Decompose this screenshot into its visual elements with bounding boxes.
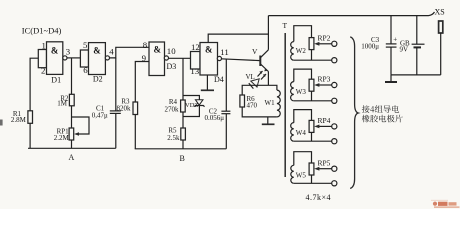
ground below W1: [262, 117, 275, 124]
resistor R6: [240, 95, 258, 110]
svg-text:RP3: RP3: [318, 75, 331, 84]
svg-text:B: B: [180, 154, 185, 163]
annotation text: [362, 105, 403, 122]
svg-text:2.2M: 2.2M: [54, 134, 70, 142]
svg-text:5: 5: [83, 40, 88, 50]
capacitor C3 branch: [361, 16, 397, 75]
svg-text:8: 8: [143, 40, 148, 50]
wire junction down to C2: [225, 59, 227, 111]
resistor R5: [167, 117, 185, 149]
primary winding W1: [265, 90, 281, 117]
wire junction down to C1: [115, 58, 117, 111]
LED VL: [246, 71, 267, 89]
capacitor C2: [204, 107, 230, 121]
svg-text:0.056μ: 0.056μ: [204, 114, 224, 122]
svg-text:+: +: [393, 36, 397, 44]
R6 W1 loop wires: [242, 85, 277, 95]
bottom negative line: [391, 74, 441, 76]
svg-text:820k: 820k: [117, 105, 132, 113]
wire D2 out to junction: [109, 47, 149, 58]
svg-text:&: &: [93, 45, 101, 55]
top power rail: [268, 15, 428, 17]
svg-text:RP4: RP4: [318, 116, 331, 125]
svg-text:D2: D2: [93, 75, 103, 84]
secondary winding W5 unit: [291, 152, 337, 186]
svg-text:W5: W5: [296, 172, 307, 180]
svg-text:V: V: [252, 47, 258, 56]
wire C1 to rail A: [115, 113, 117, 148]
wire node junction down to R2: [71, 58, 73, 94]
node A rail: [28, 148, 116, 162]
resistor R2: [57, 94, 74, 107]
svg-text:2: 2: [41, 65, 45, 75]
gate D2: [80, 40, 114, 84]
svg-text:VL: VL: [246, 73, 255, 81]
svg-text:IC(D1~D4): IC(D1~D4): [22, 25, 62, 35]
wire R3 to rail B: [134, 115, 136, 149]
wire D4 power pin to top rail: [208, 34, 268, 42]
resistor R1: [11, 110, 33, 124]
brace: [350, 37, 358, 189]
wire emitter down: [267, 72, 269, 86]
svg-text:&: &: [51, 45, 59, 55]
transistor V: [252, 47, 268, 72]
battery GB branch: [400, 16, 425, 75]
svg-text:4: 4: [109, 47, 114, 57]
edge speck: [0, 120, 3, 126]
capacitor C1: [92, 104, 121, 119]
svg-text:13: 13: [190, 66, 199, 76]
svg-text:9V: 9V: [400, 45, 409, 53]
svg-text:4.7k×4: 4.7k×4: [306, 193, 332, 202]
gate D4: [190, 42, 228, 84]
resistor R4: [165, 98, 186, 114]
svg-text:6: 6: [83, 65, 88, 75]
wire junction down to R4: [182, 58, 184, 100]
ground below D4: [201, 75, 214, 90]
svg-text:1M: 1M: [57, 100, 68, 108]
wire D4 out to transistor base: [221, 59, 260, 61]
svg-text:RP5: RP5: [318, 158, 331, 167]
potentiometer RP1: [54, 117, 89, 142]
secondary winding W3 unit: [291, 69, 337, 103]
wire D3 out to D4 in: [168, 57, 190, 59]
svg-text:&: &: [205, 45, 213, 55]
node B rail: [135, 149, 227, 163]
svg-text:W2: W2: [296, 47, 307, 55]
svg-text:D4: D4: [214, 75, 224, 84]
ground power: [385, 75, 397, 82]
svg-text:T: T: [283, 21, 288, 30]
svg-text:3: 3: [66, 47, 71, 57]
svg-text:1000μ: 1000μ: [361, 42, 379, 50]
svg-text:1: 1: [42, 40, 46, 50]
svg-text:A: A: [69, 153, 75, 162]
svg-text:W3: W3: [296, 88, 307, 96]
wire pin9 from R3: [135, 62, 149, 103]
wire R2 to RP1: [71, 106, 73, 128]
resistor R3: [117, 98, 138, 115]
svg-text:&: &: [154, 45, 162, 55]
svg-text:RP2: RP2: [318, 34, 331, 43]
svg-text:12: 12: [191, 42, 200, 52]
gate D3: [142, 40, 177, 76]
svg-text:0,47μ: 0,47μ: [92, 112, 108, 120]
svg-text:2.5k: 2.5k: [167, 134, 180, 142]
svg-text:D1: D1: [51, 76, 61, 85]
svg-text:10: 10: [167, 46, 176, 56]
svg-text:W4: W4: [296, 129, 307, 137]
gate D1: [38, 40, 70, 84]
transformer T core: [283, 21, 288, 177]
secondary winding W2 unit: [291, 26, 337, 63]
svg-text:VDZ: VDZ: [185, 102, 198, 109]
wire RP1 to rail A: [71, 140, 73, 148]
wire C2 to rail B: [225, 114, 227, 149]
svg-text:270k: 270k: [165, 106, 180, 114]
wire R1 top to D1 inputs: [30, 58, 38, 148]
wire D1 out to D2 in: [67, 57, 81, 59]
svg-text:2.8M: 2.8M: [11, 116, 27, 124]
svg-text:W1: W1: [265, 99, 276, 107]
svg-text:11: 11: [220, 47, 228, 57]
zener diode VDZ parallel loop: [183, 96, 205, 117]
svg-text:D3: D3: [167, 62, 177, 71]
watermark: [431, 200, 460, 208]
svg-text:470: 470: [247, 102, 258, 110]
secondary winding W4 unit: [291, 110, 337, 144]
svg-text:XS: XS: [435, 8, 445, 17]
wire collector to top rail: [267, 16, 269, 50]
connector XS: [429, 8, 445, 75]
